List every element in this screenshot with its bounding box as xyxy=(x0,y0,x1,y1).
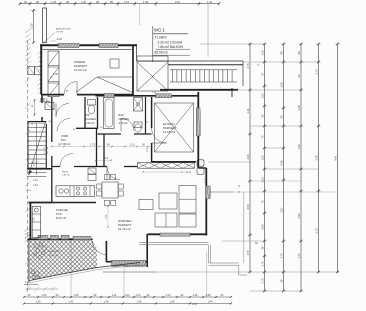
svg-text:ABDICHTUNG: ABDICHTUNG xyxy=(56,28,71,31)
svg-text:VORR.: VORR. xyxy=(61,135,69,138)
svg-text:1.21: 1.21 xyxy=(246,108,250,114)
svg-text:1.46: 1.46 xyxy=(193,294,198,297)
svg-text:7.06 m2: 7.06 m2 xyxy=(61,143,71,146)
svg-text:1.30: 1.30 xyxy=(36,301,41,304)
svg-text:2.40: 2.40 xyxy=(280,160,284,166)
svg-text:1.10: 1.10 xyxy=(44,152,49,155)
svg-text:1.75: 1.75 xyxy=(280,253,284,259)
svg-text:6.33 m2 LOGGIA: 6.33 m2 LOGGIA xyxy=(158,40,183,44)
svg-text:1.75: 1.75 xyxy=(297,253,301,259)
svg-text:1.75: 1.75 xyxy=(261,278,265,284)
svg-text:1.30: 1.30 xyxy=(34,217,36,222)
svg-text:1.11: 1.11 xyxy=(130,144,135,147)
svg-text:1.38: 1.38 xyxy=(206,294,211,297)
svg-text:1.00: 1.00 xyxy=(53,73,58,76)
svg-text:1.38: 1.38 xyxy=(170,301,175,304)
svg-text:1.25: 1.25 xyxy=(51,0,57,4)
svg-text:1.50: 1.50 xyxy=(106,214,108,219)
svg-text:3.37: 3.37 xyxy=(280,207,284,213)
svg-text:1.43: 1.43 xyxy=(136,294,141,297)
svg-text:BAD: BAD xyxy=(119,114,124,117)
svg-text:1.44: 1.44 xyxy=(207,0,213,4)
svg-text:2.50: 2.50 xyxy=(246,204,250,210)
svg-text:1.50 m2: 1.50 m2 xyxy=(86,122,96,125)
svg-text:1.50: 1.50 xyxy=(261,155,265,161)
svg-text:7.66 m2 BALKON: 7.66 m2 BALKON xyxy=(158,45,184,49)
svg-text:2.59: 2.59 xyxy=(280,82,284,88)
svg-text:5.60: 5.60 xyxy=(297,213,301,219)
svg-text:1.38: 1.38 xyxy=(192,303,197,306)
svg-text:WG 1: WG 1 xyxy=(154,28,165,33)
svg-text:1.44: 1.44 xyxy=(208,301,213,304)
svg-text:1.54 m2: 1.54 m2 xyxy=(62,175,71,177)
svg-text:FLIESEN: FLIESEN xyxy=(86,118,97,121)
svg-text:85.08 m2: 85.08 m2 xyxy=(155,51,169,55)
svg-text:+0.00: +0.00 xyxy=(26,190,32,192)
svg-text:WE FL: WE FL xyxy=(62,172,69,174)
svg-text:2.16: 2.16 xyxy=(246,154,250,160)
svg-text:2.50: 2.50 xyxy=(261,177,265,183)
svg-text:1.02: 1.02 xyxy=(261,93,265,99)
svg-text:1.75: 1.75 xyxy=(246,250,250,256)
svg-text:5.60: 5.60 xyxy=(261,224,265,230)
svg-text:FLIESEN: FLIESEN xyxy=(119,118,130,121)
svg-text:1.00: 1.00 xyxy=(261,50,265,56)
svg-text:2.75: 2.75 xyxy=(246,63,250,69)
svg-text:1.23: 1.23 xyxy=(166,294,171,297)
svg-text:WG 1: WG 1 xyxy=(40,98,48,102)
svg-text:1.03: 1.03 xyxy=(42,294,47,297)
svg-text:1.73: 1.73 xyxy=(90,144,95,147)
svg-text:2.20: 2.20 xyxy=(30,23,34,29)
svg-text:71.09m2: 71.09m2 xyxy=(155,36,168,40)
svg-text:PVC: PVC xyxy=(61,139,66,142)
svg-text:1.10: 1.10 xyxy=(44,147,49,150)
svg-text:2.75: 2.75 xyxy=(315,69,319,75)
svg-text:-0.25: -0.25 xyxy=(56,37,62,41)
svg-text:1.03: 1.03 xyxy=(125,294,130,297)
svg-text:11.18 m2: 11.18 m2 xyxy=(163,130,176,134)
svg-text:12.00 m2: 12.00 m2 xyxy=(74,68,87,72)
svg-text:1.25: 1.25 xyxy=(81,0,87,4)
svg-text:8.41: 8.41 xyxy=(334,155,338,161)
svg-text:1.42: 1.42 xyxy=(112,294,117,297)
svg-text:1.43: 1.43 xyxy=(104,301,109,304)
svg-text:1.08: 1.08 xyxy=(74,294,79,297)
svg-text:2.26: 2.26 xyxy=(315,155,319,161)
svg-text:43.25 m2: 43.25 m2 xyxy=(49,255,59,257)
svg-text:1.10: 1.10 xyxy=(33,184,38,187)
svg-text:1.75: 1.75 xyxy=(261,261,265,267)
svg-text:WC: WC xyxy=(86,114,90,117)
svg-text:1.46: 1.46 xyxy=(137,301,142,304)
svg-text:1.43: 1.43 xyxy=(297,144,301,150)
svg-text:1.10: 1.10 xyxy=(124,0,130,4)
svg-text:1.10: 1.10 xyxy=(33,179,38,182)
svg-text:31.16 m2: 31.16 m2 xyxy=(118,227,131,231)
svg-text:OK FB: OK FB xyxy=(56,31,63,33)
svg-text:2.26: 2.26 xyxy=(297,105,301,111)
svg-text:1.13: 1.13 xyxy=(103,157,108,160)
svg-text:4.79 m2: 4.79 m2 xyxy=(119,122,129,125)
svg-text:1.38: 1.38 xyxy=(143,0,149,4)
svg-text:8.44 m2: 8.44 m2 xyxy=(56,216,67,220)
svg-text:2.75: 2.75 xyxy=(315,228,319,234)
svg-text:1.42: 1.42 xyxy=(69,301,74,304)
svg-text:3.62: 3.62 xyxy=(175,0,181,4)
svg-text:TERRASSE: TERRASSE xyxy=(48,250,60,253)
